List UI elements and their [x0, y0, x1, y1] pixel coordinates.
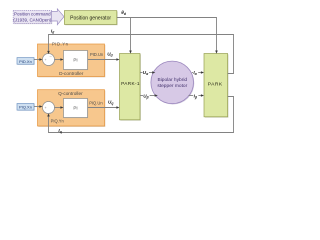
svg-text:PID.Xn: PID.Xn	[19, 59, 32, 64]
svg-text:PI: PI	[73, 106, 77, 111]
arrow into D PI	[60, 58, 63, 61]
arrow I-alpha into PARK	[201, 71, 204, 74]
svg-text:+: +	[45, 58, 47, 62]
node label theta-d	[121, 10, 127, 16]
wire: Q input to Q sum	[34, 106, 41, 108]
bipolar hybrid stepper motor	[151, 61, 194, 104]
wire: I-beta motor to PARK	[189, 95, 203, 97]
position command box (J1939, CANOpen)	[13, 10, 52, 24]
PIQ.Xn input box	[17, 104, 35, 111]
svg-text:(J1939, CANOpen): (J1939, CANOpen)	[13, 17, 51, 22]
arrowheads	[39, 51, 217, 117]
position generator block	[64, 11, 117, 26]
D-controller block (orange)	[38, 44, 106, 77]
svg-text:PIQ.Un: PIQ.Un	[89, 100, 103, 105]
svg-text:Position generator: Position generator	[70, 15, 111, 21]
wire: D sum to PI	[54, 59, 62, 61]
svg-text:PARK-1: PARK-1	[121, 81, 140, 86]
wire: PID.Xn input to D sum	[34, 59, 41, 61]
wire: U-alpha PARK-1 to motor	[140, 72, 153, 74]
svg-text:Bipolar hybrid: Bipolar hybrid	[157, 77, 187, 83]
svg-text:+: +	[45, 106, 47, 110]
wire: Ud PI out to PARK-1	[88, 59, 119, 61]
wire: Q sum to PI	[54, 107, 62, 109]
PID.Xn input box	[17, 58, 35, 65]
wire: I-alpha motor to PARK	[192, 72, 203, 74]
arrow Uq into PARK-1	[116, 106, 119, 109]
svg-text:PIQ.Xn: PIQ.Xn	[19, 105, 32, 110]
arrow I-beta into PARK	[201, 94, 204, 97]
wire: Id feedback PARK right edge -> up -> left -> down into D sum	[49, 35, 234, 74]
arrow U-beta into motor	[155, 94, 158, 97]
node label Id	[51, 29, 55, 35]
wire: theta-d branch down to PARK-1 top	[130, 18, 132, 52]
label U-beta	[143, 93, 150, 99]
label I-alpha	[193, 70, 198, 76]
arrow into PARK-1 top	[129, 51, 132, 54]
svg-text:PIQ.Yn: PIQ.Yn	[51, 118, 65, 123]
D sum junction	[43, 54, 56, 67]
Q sum junction	[43, 102, 56, 115]
PI block (D)	[64, 51, 89, 71]
arrow Ud into PARK-1	[116, 58, 119, 61]
wire: U-beta PARK-1 to motor	[140, 95, 156, 97]
svg-text:PID.Un: PID.Un	[90, 52, 104, 57]
arrow into Q sum from bottom (Iq)	[47, 113, 50, 116]
svg-text:PARK: PARK	[208, 81, 223, 87]
svg-text:D-controller: D-controller	[59, 71, 84, 76]
PI block (Q)	[64, 99, 89, 119]
PARK-1 block (inverse park transform)	[120, 54, 141, 121]
block arrow from position command to position generator	[51, 9, 64, 25]
arrow into D sum from left	[39, 58, 42, 61]
svg-text:stepper motor: stepper motor	[157, 83, 187, 89]
wire: Iq feedback PARK right edge -> down -> left -> up into Q sum	[49, 97, 234, 133]
svg-text:PI: PI	[73, 58, 77, 63]
node label Iq	[58, 128, 62, 134]
arrow into PARK top	[215, 51, 218, 54]
wire: theta-d from position generator to PARK top	[117, 18, 217, 52]
arrow into D sum from top (Id)	[47, 51, 50, 54]
label U-alpha	[143, 70, 150, 76]
label I-beta	[193, 93, 198, 99]
arrow into Q PI	[60, 106, 63, 109]
svg-text:Q-controller: Q-controller	[58, 91, 83, 96]
wire: Uq PI out to PARK-1	[88, 107, 119, 109]
svg-text:PID.Yn: PID.Yn	[52, 42, 69, 47]
PARK block (park transform)	[204, 54, 228, 118]
arrow U-alpha into motor	[152, 71, 155, 74]
svg-text:Position command: Position command	[14, 12, 51, 17]
arrow into Q sum from left	[39, 105, 42, 108]
Q-controller block (orange)	[38, 90, 106, 127]
